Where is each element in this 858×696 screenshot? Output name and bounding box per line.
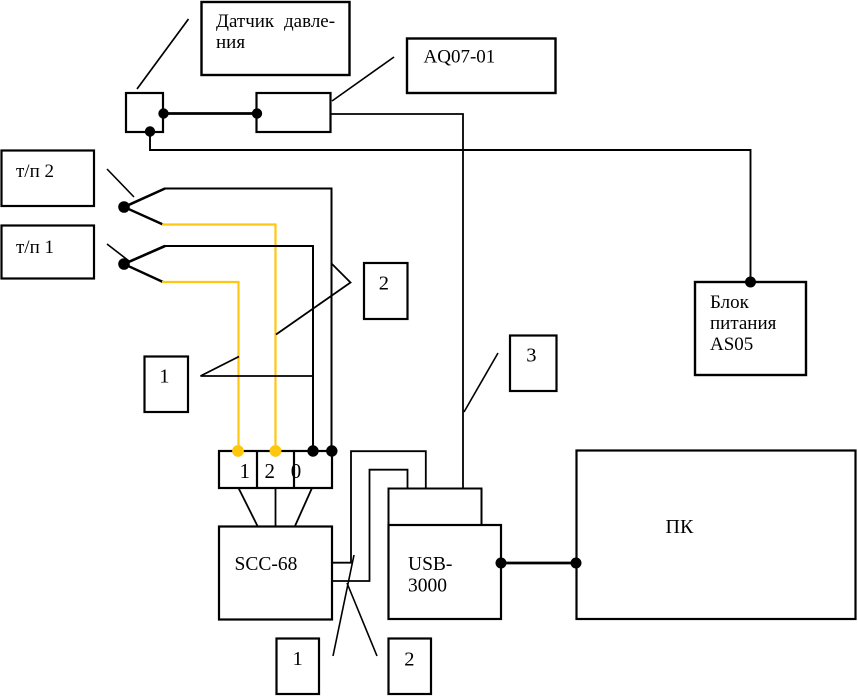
terminal dot black 1 [307, 445, 318, 456]
terminal dot yellow 1 [232, 445, 244, 457]
terminal block [219, 451, 332, 488]
bottom label box 2 (cable 2) [389, 639, 432, 695]
svg-text:0: 0 [291, 459, 302, 483]
svg-text:давле-: давле- [284, 11, 335, 32]
svg-text:ПК: ПК [666, 516, 694, 538]
block т/п 1 [2, 226, 95, 279]
wire т/п 1 black lead diagonal [124, 246, 165, 264]
wire т/п 2 yellow lead black stub [124, 207, 163, 225]
wire т/п 1 yellow lead [162, 282, 239, 451]
junction dot USB right edge [496, 558, 507, 569]
cable 2 from SCC-68 to USB connector [332, 470, 408, 581]
svg-text:AQ07-01: AQ07-01 [424, 47, 496, 68]
label box 3 (wire 3) [510, 336, 557, 392]
wire т/п 2 black lead run [164, 189, 332, 452]
junction dot т/п 1 [118, 258, 130, 270]
block SCC-68 [219, 527, 332, 620]
block Датчик давления [202, 2, 350, 75]
block AQ07-01 [407, 39, 556, 94]
svg-text:1: 1 [159, 366, 169, 388]
pointer line from label 3 to wire 3 [464, 353, 498, 412]
svg-text:SCC-68: SCC-68 [235, 554, 298, 575]
bottom label box 1 (cable 1) [277, 639, 320, 695]
svg-text:т/п 2: т/п 2 [16, 161, 54, 182]
cable 1 from SCC-68 to USB connector [332, 451, 426, 563]
svg-text:1: 1 [293, 648, 303, 670]
svg-text:т/п 1: т/п 1 [16, 237, 54, 258]
label box 2 (wires pair 2) [364, 263, 408, 319]
wire т/п 2 yellow lead [162, 225, 276, 452]
wire т/п 1 black lead run [164, 246, 313, 451]
svg-text:3000: 3000 [408, 576, 447, 597]
junction dot on converter left edge [252, 108, 262, 118]
power wire from sensor bottom to Блок питания [150, 132, 751, 283]
wire 3: converter to USB connector [331, 114, 463, 488]
block Блок питания AS05 [695, 282, 806, 375]
converter rect [257, 93, 331, 132]
pointer line from bottom label 1 to cable 1 [333, 555, 354, 656]
terminal to SCC-68 connection lines [239, 488, 313, 526]
sensor square [126, 93, 163, 132]
svg-text:AS05: AS05 [710, 334, 753, 355]
pointer line from т/п 2 to junction [107, 169, 134, 197]
USB connector box [389, 489, 482, 526]
svg-text:питания: питания [710, 313, 777, 334]
svg-text:1: 1 [240, 459, 251, 483]
wire т/п 2 black lead diagonal [124, 189, 165, 208]
pointer line from т/п 1 to junction [107, 244, 129, 261]
svg-text:3: 3 [526, 345, 536, 367]
pointer line from Датчик давления to sensor square [137, 19, 189, 89]
svg-text:2: 2 [265, 459, 276, 483]
svg-text:ния: ния [216, 32, 245, 53]
svg-text:Блок: Блок [710, 292, 750, 313]
pointer line from bottom label 2 to cable 2 [347, 583, 377, 656]
junction dot ПК left edge [571, 558, 582, 569]
label box 1 (wires pair 1) [145, 357, 189, 413]
block т/п 2 [2, 151, 95, 207]
pointer lines from label 1 to wires [201, 357, 314, 377]
svg-text:2: 2 [404, 649, 414, 671]
svg-text:Датчик: Датчик [216, 11, 275, 32]
svg-text:2: 2 [379, 273, 389, 295]
terminal dot yellow 2 [270, 445, 282, 457]
junction dot т/п 2 [118, 201, 130, 213]
terminal dot black 2 [326, 445, 337, 456]
junction dot on sensor bottom [145, 126, 155, 136]
block USB-3000 [389, 525, 502, 619]
pointer lines from label 2 to wires [276, 264, 351, 335]
junction dot at Блок питания top [745, 277, 756, 288]
svg-text:USB-: USB- [408, 554, 452, 575]
junction dot on sensor right edge [158, 108, 168, 118]
block ПК [577, 451, 856, 620]
pointer line from AQ07-01 to converter rect [332, 57, 394, 101]
wire USB-3000 to ПК [501, 562, 576, 565]
wire sensor square to converter [163, 112, 257, 115]
wire т/п 1 yellow lead black stub [124, 264, 163, 282]
